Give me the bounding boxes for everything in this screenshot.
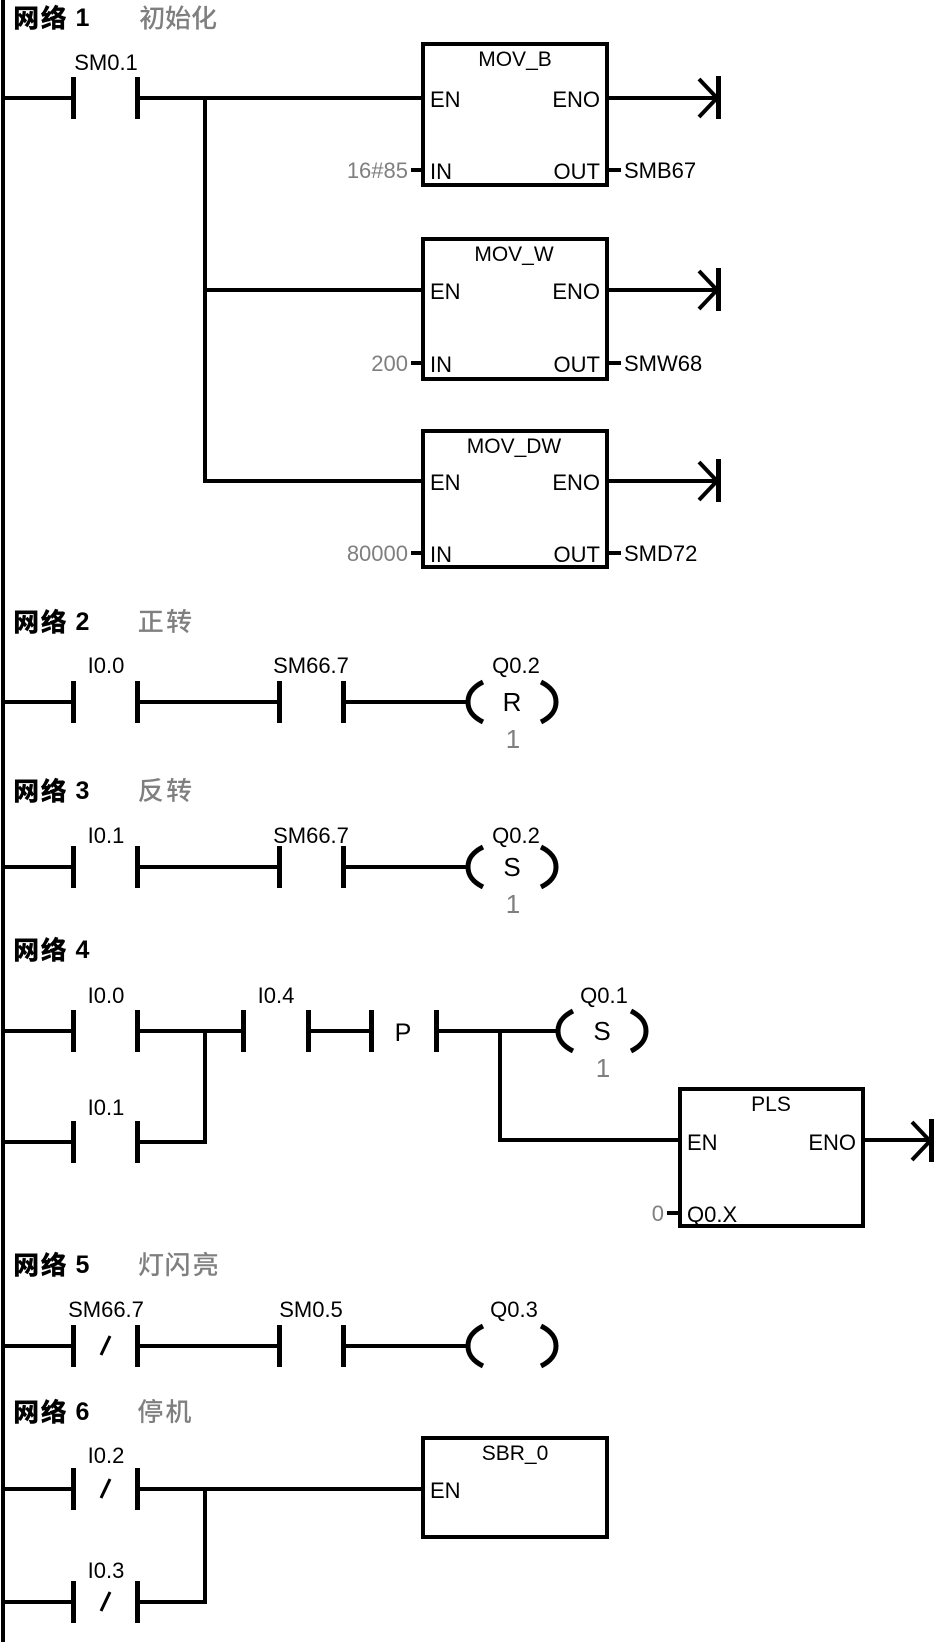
svg-text:I0.3: I0.3	[88, 1558, 125, 1583]
svg-text:SM0.5: SM0.5	[279, 1297, 343, 1322]
coil Q0.2 S	[468, 847, 556, 887]
svg-text:IN: IN	[430, 352, 452, 377]
tick IN MOV_DW	[411, 551, 421, 555]
wire rail to contact I0.0 net2	[4, 700, 71, 704]
box SBR_0	[423, 1438, 607, 1537]
tick OUT MOV_DW	[609, 551, 621, 555]
left power rail	[1, 0, 5, 1642]
branch vertical net1	[203, 96, 207, 483]
network 3 comment 反转	[139, 778, 191, 802]
tick IN MOV_W	[411, 361, 421, 365]
box MOV_W	[423, 239, 607, 379]
wire rail to contact I0.0 net4	[4, 1029, 71, 1033]
svg-text:I0.4: I0.4	[258, 983, 295, 1008]
output arrow MOV_DW	[609, 459, 721, 502]
contact I0.1 net4	[71, 1121, 140, 1163]
tick IN MOV_B	[411, 168, 421, 172]
svg-text:Q0.3: Q0.3	[490, 1297, 538, 1322]
output arrow MOV_B	[609, 76, 721, 119]
svg-text:R: R	[503, 687, 522, 717]
svg-text:1: 1	[76, 4, 90, 32]
wire rail to contact SM0.1	[4, 96, 71, 100]
svg-text:EN: EN	[687, 1130, 718, 1155]
svg-text:OUT: OUT	[554, 159, 600, 184]
coil Q0.2 R	[468, 682, 556, 722]
svg-text:6: 6	[76, 1398, 90, 1426]
wire I0.4 to P contact	[311, 1029, 369, 1033]
tick Q0.X PLS	[667, 1211, 678, 1215]
svg-text:EN: EN	[430, 87, 461, 112]
svg-text:I0.0: I0.0	[88, 983, 125, 1008]
coil Q0.1 S	[558, 1011, 646, 1051]
svg-text:Q0.X: Q0.X	[687, 1202, 737, 1227]
svg-text:Q0.1: Q0.1	[580, 983, 628, 1008]
network 3 title	[15, 778, 66, 803]
network 6 comment 停机	[138, 1399, 191, 1423]
tick OUT MOV_W	[609, 361, 621, 365]
wire I0.1 to branch net4	[140, 1140, 207, 1144]
output arrow MOV_W	[609, 268, 721, 311]
svg-text:Q0.2: Q0.2	[492, 823, 540, 848]
wire I0.0 to SM66.7 net2	[140, 700, 277, 704]
contact I0.2 NC net6	[71, 1468, 140, 1510]
svg-text:IN: IN	[430, 159, 452, 184]
network 6 title	[15, 1399, 66, 1424]
contact I0.3 NC net6	[71, 1581, 140, 1623]
svg-text:ENO: ENO	[552, 279, 600, 304]
box PLS	[680, 1089, 863, 1226]
wire rail to contact I0.2 net6	[4, 1487, 71, 1491]
svg-text:1: 1	[506, 724, 520, 754]
network 4 title	[15, 937, 66, 962]
svg-text:PLS: PLS	[751, 1093, 791, 1116]
svg-text:1: 1	[506, 889, 520, 919]
wire I0.1 to SM66.7 net3	[140, 865, 277, 869]
svg-text:SBR_0: SBR_0	[482, 1442, 549, 1465]
svg-text:5: 5	[76, 1251, 90, 1279]
svg-text:2: 2	[76, 608, 90, 636]
contact SM0.1	[71, 77, 140, 119]
svg-text:200: 200	[371, 351, 408, 376]
svg-text:EN: EN	[430, 470, 461, 495]
svg-text:S: S	[503, 852, 520, 882]
svg-text:SMW68: SMW68	[624, 351, 702, 376]
svg-text:1: 1	[596, 1053, 610, 1083]
wire P to coil Q0.1	[439, 1029, 557, 1033]
svg-text:MOV_B: MOV_B	[478, 48, 552, 71]
svg-text:ENO: ENO	[552, 470, 600, 495]
svg-text:I0.0: I0.0	[88, 653, 125, 678]
wire rail to contact SM66.7 net5	[4, 1344, 71, 1348]
svg-text:SMD72: SMD72	[624, 541, 697, 566]
contact P positive edge	[369, 1010, 439, 1052]
svg-text:SMB67: SMB67	[624, 158, 696, 183]
svg-text:SM66.7: SM66.7	[273, 823, 349, 848]
wire SM66.7 to coil net3	[346, 865, 468, 869]
svg-text:P: P	[395, 1019, 412, 1047]
wire rail to contact I0.3 net6	[4, 1600, 71, 1604]
wire I0.0 to I0.4 net4	[140, 1029, 241, 1033]
svg-text:IN: IN	[430, 542, 452, 567]
svg-text:80000: 80000	[347, 541, 408, 566]
svg-text:S: S	[593, 1016, 610, 1046]
contact SM66.7 NC net5	[71, 1325, 140, 1367]
branch vertical net4	[203, 1029, 207, 1144]
svg-text:MOV_DW: MOV_DW	[467, 435, 562, 458]
branch vertical net6	[203, 1487, 207, 1604]
svg-text:SM66.7: SM66.7	[273, 653, 349, 678]
wire I0.3 to branch net6	[140, 1600, 207, 1604]
wire I0.2 to SBR_0 EN	[140, 1487, 423, 1491]
svg-text:OUT: OUT	[554, 542, 600, 567]
tick OUT MOV_B	[609, 168, 621, 172]
network 1 comment 初始化	[140, 5, 216, 29]
wire contact SM0.1 to MOV_B EN	[140, 96, 423, 100]
svg-text:16#85: 16#85	[347, 158, 408, 183]
wire SM0.5 to coil net5	[346, 1344, 468, 1348]
svg-text:I0.1: I0.1	[88, 1095, 125, 1120]
wire branch to MOV_W EN	[203, 288, 423, 292]
svg-text:4: 4	[76, 936, 90, 964]
box MOV_DW	[423, 431, 607, 567]
network 2 comment 正转	[139, 609, 191, 633]
contact SM66.7 net2	[277, 681, 346, 723]
svg-text:ENO: ENO	[808, 1130, 856, 1155]
network 1 title	[15, 5, 66, 30]
svg-text:I0.1: I0.1	[88, 823, 125, 848]
contact SM66.7 net3	[277, 846, 346, 888]
svg-text:0: 0	[652, 1201, 664, 1226]
svg-text:Q0.2: Q0.2	[492, 653, 540, 678]
wire rail to contact I0.1 net4	[4, 1140, 71, 1144]
svg-text:SM0.1: SM0.1	[74, 50, 138, 75]
svg-text:3: 3	[76, 777, 90, 805]
network 5 title	[15, 1252, 66, 1277]
wire junction to PLS EN	[498, 1138, 680, 1142]
svg-text:ENO: ENO	[552, 87, 600, 112]
svg-text:OUT: OUT	[554, 352, 600, 377]
svg-text:I0.2: I0.2	[88, 1443, 125, 1468]
svg-text:SM66.7: SM66.7	[68, 1297, 144, 1322]
contact SM0.5 net5	[277, 1325, 346, 1367]
contact I0.0 net2	[71, 681, 140, 723]
wire SM66.7 to SM0.5 net5	[140, 1344, 277, 1348]
contact I0.1 net3	[71, 846, 140, 888]
svg-text:EN: EN	[430, 1478, 461, 1503]
coil Q0.3	[468, 1326, 556, 1366]
wire SM66.7 to coil net2	[346, 700, 468, 704]
wire branch to MOV_DW EN	[203, 479, 423, 483]
junction vertical to PLS	[498, 1029, 502, 1142]
box MOV_B	[423, 44, 607, 185]
svg-text:MOV_W: MOV_W	[474, 243, 554, 266]
contact I0.0 net4	[71, 1010, 140, 1052]
output arrow PLS	[865, 1119, 934, 1162]
svg-text:EN: EN	[430, 279, 461, 304]
contact I0.4 net4	[241, 1010, 311, 1052]
wire rail to contact I0.1 net3	[4, 865, 71, 869]
network 2 title	[15, 609, 66, 634]
network 5 comment 灯闪亮	[139, 1252, 217, 1276]
